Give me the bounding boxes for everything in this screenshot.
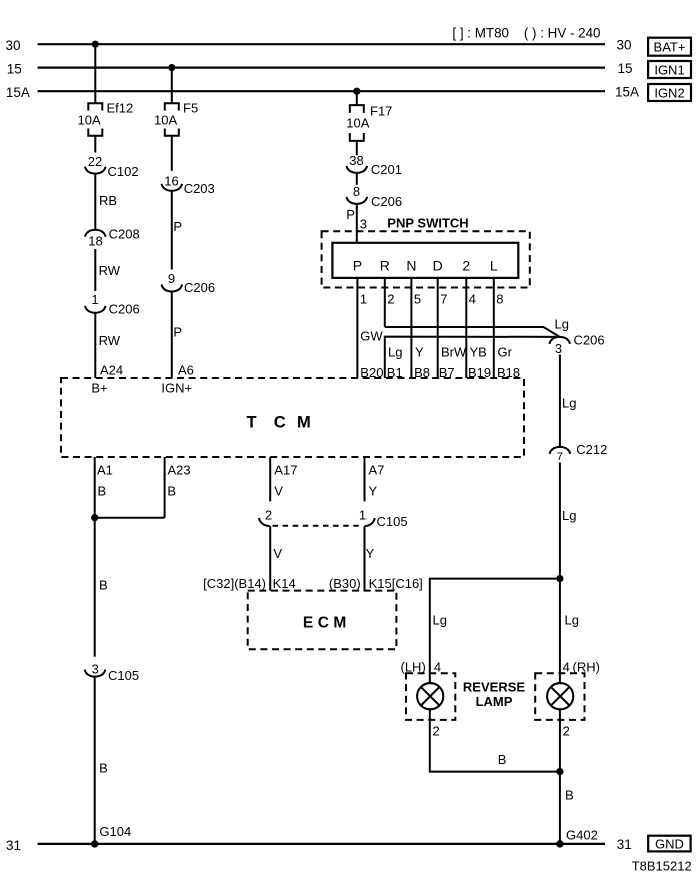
- LH reverse lamp dashed box: [406, 673, 455, 720]
- connector C105 pin 3: [85, 662, 139, 684]
- ECM label: [303, 615, 346, 632]
- wire RW: C208 to C206 pin 1: [95, 249, 120, 291]
- svg-text:B: B: [99, 761, 108, 776]
- wire B: TCM A23 down: [165, 457, 176, 518]
- svg-text:4: 4: [563, 660, 570, 675]
- svg-text:IGN1: IGN1: [654, 62, 684, 77]
- connector C206 pin 8: [347, 184, 403, 209]
- TCM pin labels bottom: [97, 463, 384, 478]
- TCM label: [247, 414, 311, 432]
- svg-text:Y: Y: [369, 484, 378, 499]
- svg-text:B1: B1: [387, 365, 403, 380]
- svg-text:G402: G402: [566, 828, 598, 843]
- node: bus15A to fuse F17 junction: [353, 88, 360, 95]
- svg-text:30: 30: [617, 38, 632, 53]
- svg-text:YB: YB: [470, 345, 487, 360]
- svg-text:A24: A24: [100, 363, 123, 378]
- svg-text:C203: C203: [184, 181, 215, 196]
- wire PNP pin 2 (R) down to branch: [385, 278, 395, 327]
- wire Lg: junction to LH reverse lamp: [430, 579, 560, 674]
- svg-text:T8B15212: T8B15212: [632, 859, 692, 874]
- svg-text:P: P: [346, 207, 355, 222]
- header note: [452, 25, 600, 40]
- wire B: TCM A1 down: [95, 457, 106, 518]
- svg-text:Y: Y: [415, 345, 424, 360]
- wire P: C206 pin 8 to PNP switch pin 3: [346, 204, 367, 243]
- svg-text:B: B: [565, 788, 574, 803]
- svg-text:G104: G104: [99, 824, 131, 839]
- wire branch: PNP R to connector C206 pin 3: [385, 317, 569, 337]
- svg-text:L: L: [490, 258, 498, 274]
- wire C201 to C206 pin 8: [356, 173, 358, 185]
- svg-text:10A: 10A: [154, 112, 177, 127]
- wire P: C206 to TCM A6: [172, 292, 182, 379]
- fuse F5 10A: [154, 101, 198, 136]
- svg-text:B8: B8: [414, 365, 430, 380]
- svg-text:PNP SWITCH: PNP SWITCH: [387, 216, 468, 231]
- svg-text:M: M: [297, 414, 311, 432]
- svg-text:Lg: Lg: [562, 396, 576, 411]
- svg-text:31: 31: [617, 837, 632, 852]
- svg-text:RW: RW: [99, 333, 121, 348]
- svg-text:N: N: [406, 258, 416, 274]
- svg-text:RW: RW: [99, 263, 121, 278]
- svg-text:A6: A6: [178, 363, 194, 378]
- svg-text:2: 2: [433, 724, 440, 739]
- wire RB: C102 to C208: [95, 174, 117, 230]
- svg-text:4: 4: [469, 292, 476, 307]
- wire Lg: C206 pin 3 to C212: [560, 355, 577, 447]
- svg-text:K14: K14: [273, 576, 296, 591]
- node: bus15 to fuse F5 junction: [168, 64, 175, 71]
- wire fuse F17 to connector C201: [356, 141, 358, 155]
- svg-text:Ef12: Ef12: [107, 101, 134, 116]
- ground G402: [556, 828, 598, 848]
- svg-text:IGN2: IGN2: [654, 85, 684, 100]
- wire V: TCM A17 to C105 pin 2: [270, 457, 283, 501]
- RH lamp pin 4 label: [563, 660, 600, 675]
- svg-text:A23: A23: [168, 463, 191, 478]
- connector C206 pin 3: [549, 333, 604, 357]
- wire Lg: C212 to reverse lamp feed: [560, 463, 577, 674]
- connector C203 pin 16: [162, 174, 215, 196]
- svg-text:IGN+: IGN+: [161, 381, 192, 396]
- svg-text:1: 1: [359, 507, 366, 522]
- node: lamp ground junction: [556, 768, 563, 775]
- svg-text:C: C: [318, 615, 329, 632]
- svg-text:BrW: BrW: [441, 345, 467, 360]
- wire bus15 down to fuse F5: [171, 68, 173, 104]
- PNP switch dashed box: [322, 231, 530, 287]
- RH reverse lamp dashed box: [535, 673, 584, 720]
- BAT+ terminal box: [648, 38, 691, 56]
- svg-text:REVERSE: REVERSE: [463, 680, 525, 695]
- svg-text:[C32](B14): [C32](B14): [203, 576, 266, 591]
- TCM pin labels top: [91, 363, 520, 396]
- bus 30 (BAT+): [6, 38, 632, 53]
- wire PNP pin 7 (D) to TCM B7: [438, 278, 467, 378]
- svg-text:2: 2: [265, 507, 272, 522]
- svg-text:B: B: [498, 752, 507, 767]
- svg-text:Gr: Gr: [498, 345, 513, 360]
- svg-text:30: 30: [6, 38, 21, 53]
- svg-text:C206: C206: [184, 280, 215, 295]
- svg-text:2: 2: [563, 724, 570, 739]
- node: A1/A23 junction: [91, 514, 98, 521]
- svg-text:15: 15: [7, 61, 22, 76]
- IGN2 terminal box: [648, 84, 691, 101]
- wire fuse F5 to connector C203: [171, 136, 173, 171]
- svg-text:V: V: [274, 484, 283, 499]
- svg-text:(RH): (RH): [573, 660, 600, 675]
- svg-text:B: B: [99, 578, 108, 593]
- svg-text:V: V: [273, 546, 282, 561]
- svg-text:C105: C105: [108, 668, 139, 683]
- svg-text:18: 18: [88, 234, 102, 249]
- svg-text:Lg: Lg: [565, 613, 579, 628]
- svg-text:B19: B19: [468, 365, 491, 380]
- svg-text:Y: Y: [366, 546, 375, 561]
- svg-text:B: B: [98, 484, 107, 499]
- svg-text:Lg: Lg: [388, 345, 402, 360]
- svg-text:RB: RB: [99, 193, 117, 208]
- connector C212: [550, 442, 608, 463]
- wire B: LH lamp to junction: [430, 720, 560, 772]
- connector C105 pin 1: [359, 507, 408, 529]
- svg-text:F17: F17: [370, 104, 392, 119]
- connector C208 pin 18: [85, 227, 140, 249]
- svg-text:Lg: Lg: [555, 317, 569, 332]
- node: bus30 to fuse Ef12 junction: [92, 41, 99, 48]
- svg-text:A7: A7: [369, 463, 385, 478]
- connector C201 pin 38: [347, 153, 402, 177]
- svg-text:C208: C208: [109, 227, 140, 242]
- svg-text:C: C: [274, 414, 286, 432]
- RH reverse lamp bulb: [547, 673, 573, 720]
- svg-text:2: 2: [387, 292, 394, 307]
- wire PNP pin 8 (L) to TCM B18: [494, 278, 513, 378]
- svg-text:10A: 10A: [78, 112, 101, 127]
- svg-text:7: 7: [557, 451, 563, 463]
- svg-text:22: 22: [88, 154, 102, 169]
- svg-text:E: E: [303, 615, 313, 632]
- connector C206 pin 9: [162, 271, 216, 295]
- svg-text:3: 3: [92, 662, 99, 677]
- wire Y: C105 pin 1 to ECM K15: [365, 526, 375, 590]
- svg-text:LAMP: LAMP: [476, 694, 513, 709]
- svg-text:2: 2: [462, 258, 470, 274]
- wire P: C203 to C206 pin 9: [172, 191, 182, 270]
- svg-text:9: 9: [168, 271, 175, 286]
- bus 15 (IGN1): [7, 61, 633, 76]
- svg-text:GW: GW: [360, 329, 383, 344]
- LH lamp pin 4 label: [401, 660, 442, 675]
- TCM dashed box: [61, 378, 524, 457]
- PNP switch inner box: [332, 243, 518, 278]
- svg-text:C105: C105: [377, 514, 408, 529]
- svg-text:1: 1: [91, 292, 98, 307]
- svg-text:31: 31: [6, 838, 21, 853]
- ground G104: [91, 824, 131, 848]
- svg-text:[ ] : MT80 ( ) : HV - 240: [ ] : MT80 ( ) : HV - 240: [452, 25, 600, 40]
- svg-text:C212: C212: [576, 442, 607, 457]
- svg-text:(B30): (B30): [329, 576, 361, 591]
- connector C102 pin 22: [85, 154, 139, 179]
- wire Y: TCM A7 to C105 pin 1: [365, 457, 378, 501]
- svg-text:3: 3: [360, 217, 367, 232]
- wire PNP pin 1 (P) to TCM B20: [357, 278, 383, 378]
- node: lamp feed junction: [556, 575, 563, 582]
- ECM dashed box: [248, 591, 397, 650]
- wire RW: C206 to TCM A24: [95, 313, 120, 378]
- svg-text:D: D: [433, 258, 443, 274]
- svg-text:(LH): (LH): [401, 660, 426, 675]
- svg-text:C206: C206: [109, 302, 140, 317]
- svg-text:C102: C102: [108, 164, 139, 179]
- svg-text:B18: B18: [497, 365, 520, 380]
- svg-text:Lg: Lg: [562, 508, 576, 523]
- svg-text:F5: F5: [183, 101, 198, 116]
- wire V: C105 pin 2 to ECM K14: [270, 526, 282, 590]
- svg-text:1: 1: [360, 292, 367, 307]
- svg-text:5: 5: [414, 292, 421, 307]
- svg-text:4: 4: [434, 660, 441, 675]
- svg-text:C201: C201: [371, 162, 402, 177]
- svg-text:15A: 15A: [6, 85, 30, 100]
- wire: RH lamp down to ground: [559, 720, 561, 844]
- wire fuse Ef12 to connector C102: [94, 136, 96, 153]
- wire B: C105 pin 3 to G104: [95, 677, 108, 844]
- wire B: junction down to C105 pin 3: [95, 518, 108, 657]
- svg-text:GND: GND: [655, 836, 684, 851]
- svg-text:P: P: [353, 258, 362, 274]
- fuse Ef12 10A: [78, 101, 134, 136]
- ECM pin labels: [203, 576, 423, 591]
- svg-text:38: 38: [349, 153, 363, 168]
- svg-text:C206: C206: [574, 333, 605, 348]
- svg-text:C206: C206: [371, 194, 402, 209]
- svg-text:7: 7: [440, 292, 447, 307]
- svg-text:BAT+: BAT+: [654, 40, 686, 55]
- svg-text:P: P: [173, 219, 182, 234]
- svg-text:A1: A1: [97, 463, 113, 478]
- svg-text:15: 15: [618, 61, 633, 76]
- bus 31 (GND): [6, 837, 632, 853]
- svg-text:16: 16: [164, 174, 178, 189]
- svg-text:8: 8: [353, 184, 360, 199]
- svg-text:B: B: [167, 484, 176, 499]
- REVERSE LAMP label: [463, 680, 525, 710]
- wire bus30 down to fuse Ef12: [94, 44, 96, 103]
- svg-text:B20: B20: [360, 365, 383, 380]
- connector C206 pin 1: [85, 292, 140, 317]
- wire: junction link A1 to A23: [95, 517, 165, 519]
- bus 15A (IGN2): [6, 85, 639, 101]
- svg-text:3: 3: [555, 341, 562, 356]
- connector C105 pin 2: [259, 507, 272, 526]
- svg-text:K15[C16]: K15[C16]: [369, 576, 423, 591]
- svg-text:M: M: [333, 615, 346, 632]
- PNP switch position letters: [353, 258, 498, 274]
- svg-text:8: 8: [496, 292, 503, 307]
- wire return branch: C206 pin 3 to TCM B1: [385, 337, 560, 378]
- fuse F17 10A: [346, 104, 392, 141]
- wire PNP pin 4 (2) to TCM B19: [466, 278, 487, 378]
- wire bus15A down to fuse F17: [356, 91, 358, 105]
- svg-text:A17: A17: [274, 463, 297, 478]
- connector C105 link (dashed): [273, 525, 362, 527]
- wire PNP pin 5 (N) to TCM B8: [411, 278, 424, 378]
- svg-text:10A: 10A: [346, 116, 369, 131]
- LH reverse lamp bulb: [417, 673, 443, 720]
- svg-text:T: T: [247, 414, 257, 432]
- svg-text:B7: B7: [439, 365, 455, 380]
- svg-text:R: R: [380, 258, 390, 274]
- svg-text:P: P: [173, 325, 182, 340]
- IGN1 terminal box: [648, 61, 691, 78]
- GND terminal box: [648, 836, 690, 852]
- svg-text:15A: 15A: [615, 85, 639, 100]
- svg-text:Lg: Lg: [433, 613, 447, 628]
- svg-text:B+: B+: [91, 381, 107, 396]
